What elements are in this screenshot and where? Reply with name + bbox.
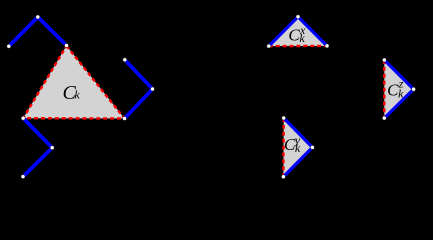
label C_k: [63, 82, 81, 104]
node triangle apex: [65, 44, 69, 48]
wire zigzag bottom-left: [23, 118, 52, 176]
svg-text:k: k: [398, 86, 404, 100]
svg-text:k: k: [299, 31, 305, 45]
triangle C_k^z dashed red left edge: [383, 60, 385, 118]
wire zigzag top-left: [9, 17, 67, 46]
node zigzag2 bottom end: [21, 175, 25, 179]
triangle C_k dashed red border: [23, 46, 124, 119]
node C_k^y apex: [310, 145, 314, 149]
triangle C_k^z blue edges: [384, 60, 413, 118]
node zigzag2 middle: [50, 146, 54, 150]
node triangle bottom-left: [21, 116, 25, 120]
node zigzag3 middle: [151, 87, 155, 91]
node C_k^z apex: [412, 87, 416, 91]
node C_k^z bottom-left: [382, 116, 386, 120]
triangle C_k fill: [23, 46, 124, 119]
triangle C_k^x dashed red bottom edge: [269, 45, 327, 48]
wire zigzag right: [125, 60, 153, 119]
node C_k^z top-left: [382, 58, 386, 62]
triangle C_k^y dashed red left edge: [282, 118, 285, 177]
triangle C_k^x fill: [269, 17, 327, 46]
node zigzag1 peak: [36, 15, 40, 19]
label C_k^z: [387, 76, 404, 100]
triangle C_k^y blue edges: [283, 118, 312, 177]
triangle C_k^z fill: [384, 60, 413, 118]
svg-text:k: k: [74, 88, 80, 102]
node C_k^x right: [325, 44, 329, 48]
label C_k^y: [284, 133, 301, 155]
label C_k^x: [288, 23, 306, 45]
node zigzag1 left end: [7, 44, 11, 48]
node triangle bottom-right: [123, 117, 127, 121]
triangle C_k^x blue edges: [269, 17, 327, 46]
node C_k^x left: [267, 44, 271, 48]
node zigzag3 top end: [123, 58, 127, 62]
node C_k^y bottom-left: [281, 175, 285, 179]
node C_k^x apex: [296, 15, 300, 19]
node C_k^y top-left: [282, 116, 286, 120]
triangle C_k^y fill: [283, 118, 312, 177]
svg-text:k: k: [295, 141, 301, 155]
